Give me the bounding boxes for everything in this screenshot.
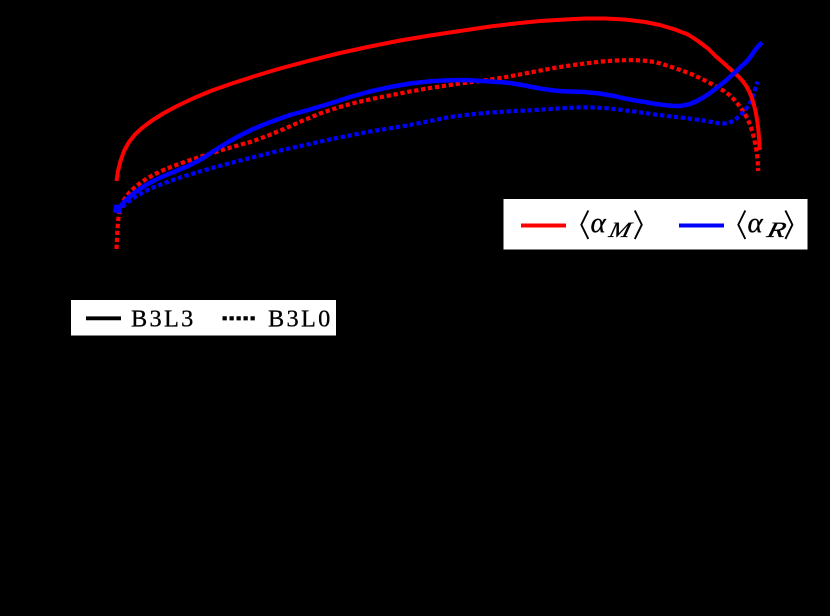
svg-text:α: α [748, 207, 764, 239]
svg-text:B3L3: B3L3 [131, 306, 196, 333]
svg-text:α: α [591, 207, 607, 239]
svg-text:B3L0: B3L0 [268, 306, 333, 333]
